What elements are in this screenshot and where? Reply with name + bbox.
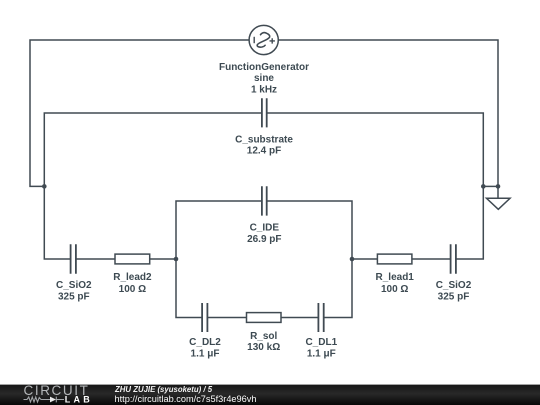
capacitor C_SiO2 left xyxy=(71,244,76,274)
node junction right inner xyxy=(481,184,486,189)
label C_DL1 xyxy=(305,337,337,359)
capacitor C_SiO2 right xyxy=(451,244,456,274)
footer bar xyxy=(0,385,540,405)
svg-text:C_DL1: C_DL1 xyxy=(305,337,337,348)
label C_IDE xyxy=(247,223,281,245)
svg-text:C_substrate: C_substrate xyxy=(235,134,293,145)
label FunctionGenerator xyxy=(219,62,309,95)
svg-text:R_lead1: R_lead1 xyxy=(376,272,415,283)
node junction right outer xyxy=(496,184,501,189)
ground xyxy=(487,186,511,209)
capacitor C_DL2 xyxy=(202,303,207,332)
wire box top xyxy=(176,201,352,259)
svg-text:C_SiO2: C_SiO2 xyxy=(436,280,472,291)
svg-text:325 pF: 325 pF xyxy=(58,292,90,303)
svg-text:FunctionGenerator: FunctionGenerator xyxy=(219,62,309,73)
label C_SiO2 left xyxy=(56,280,92,303)
svg-text:C_IDE: C_IDE xyxy=(250,223,280,234)
wire top loop right segment xyxy=(279,40,499,186)
resistor R_lead2 xyxy=(115,254,150,264)
capacitor C_substrate xyxy=(262,98,267,127)
wire top loop left segment xyxy=(30,40,249,186)
node junction box right xyxy=(350,257,355,262)
svg-text:LAB: LAB xyxy=(65,395,93,405)
svg-text:ZHU ZUJIE (syusoketu) / 5: ZHU ZUJIE (syusoketu) / 5 xyxy=(114,385,213,394)
svg-text:130 kΩ: 130 kΩ xyxy=(247,342,280,353)
svg-text:C_SiO2: C_SiO2 xyxy=(56,280,92,291)
label C_substrate xyxy=(235,134,293,156)
capacitor C_DL1 xyxy=(318,303,323,332)
svg-text:100 Ω: 100 Ω xyxy=(381,284,408,295)
svg-text:R_lead2: R_lead2 xyxy=(113,272,152,283)
label R_sol xyxy=(247,331,280,353)
svg-text:sine: sine xyxy=(254,73,274,84)
svg-text:R_sol: R_sol xyxy=(250,331,277,342)
node junction box left xyxy=(174,257,179,262)
svg-text:1.1 μF: 1.1 μF xyxy=(191,348,220,359)
wire jumper ground node xyxy=(483,185,498,187)
svg-text:http://circuitlab.com/c7s5f3r4: http://circuitlab.com/c7s5f3r4e96vh xyxy=(115,394,257,404)
wire substrate row right xyxy=(267,113,484,259)
wire R_lead2 to box xyxy=(150,258,176,260)
label R_lead1 xyxy=(376,272,415,295)
svg-text:100 Ω: 100 Ω xyxy=(119,284,146,295)
resistor R_lead1 xyxy=(377,254,412,264)
svg-text:26.9 pF: 26.9 pF xyxy=(247,234,281,245)
svg-text:1.1 μF: 1.1 μF xyxy=(307,348,336,359)
wire R_lead1 to right cap xyxy=(412,258,451,260)
svg-text:12.4 pF: 12.4 pF xyxy=(247,146,281,157)
svg-text:1 kHz: 1 kHz xyxy=(251,84,277,95)
label R_lead2 xyxy=(113,272,152,295)
CircuitLab logo xyxy=(24,383,93,405)
svg-text:C_DL2: C_DL2 xyxy=(189,337,221,348)
wire left cap to R_lead2 xyxy=(76,258,115,260)
wire substrate row left xyxy=(44,113,262,259)
capacitor C_IDE xyxy=(262,186,267,215)
label C_SiO2 right xyxy=(436,280,472,303)
node junction left xyxy=(42,184,47,189)
wire box to R_lead1 xyxy=(352,258,377,260)
function generator V1 xyxy=(249,25,278,54)
wire box bottom xyxy=(176,259,352,318)
svg-text:325 pF: 325 pF xyxy=(438,292,470,303)
resistor R_sol xyxy=(247,313,282,323)
label C_DL2 xyxy=(189,337,221,359)
